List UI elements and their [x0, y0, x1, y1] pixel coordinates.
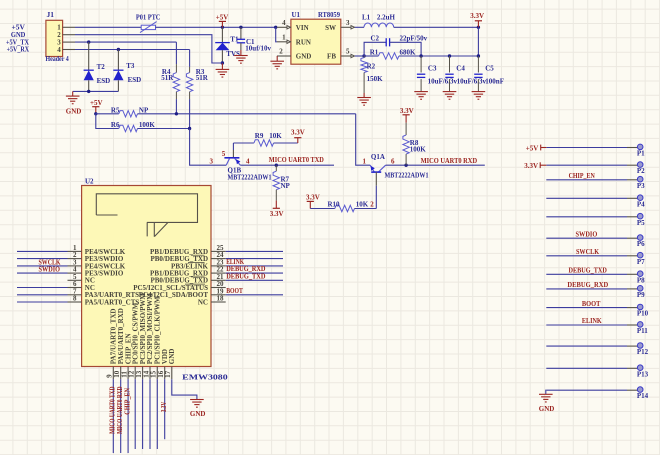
svg-text:MICO UART0 RXD: MICO UART0 RXD	[421, 157, 478, 165]
op-amp U1 RT8059 body	[291, 19, 341, 64]
wire NP-row down to Q1A base wire	[356, 114, 371, 165]
svg-text:GND: GND	[66, 107, 82, 115]
svg-text:150K: 150K	[367, 75, 384, 83]
wire R1 to 3.3V rail	[364, 55, 378, 57]
ground under C1	[240, 50, 242, 56]
U2 name overbars	[191, 254, 205, 256]
U1 pin stubs right	[341, 26, 355, 28]
pad P9	[546, 288, 627, 290]
svg-text:5: 5	[222, 150, 226, 158]
svg-text:P9: P9	[637, 291, 645, 299]
resistor R5 NP	[96, 113, 119, 115]
svg-text:P4: P4	[637, 200, 645, 208]
junction R8 node	[404, 164, 407, 167]
ground under R2	[363, 93, 365, 98]
wire 3.3V rail down	[477, 27, 479, 56]
svg-text:+5V: +5V	[90, 99, 103, 107]
U2 right wires	[226, 250, 283, 252]
pad P7	[546, 255, 627, 257]
U2 right pin stubs	[211, 250, 226, 252]
svg-text:SW: SW	[325, 24, 336, 32]
junction +5V/R5	[94, 112, 97, 115]
junction C1 node	[239, 26, 242, 29]
resistor R9 10K	[233, 142, 254, 144]
svg-text:100nF: 100nF	[485, 77, 504, 85]
U2 left pin stubs	[68, 250, 82, 252]
svg-text:100K: 100K	[410, 146, 427, 154]
junction R4/R5	[175, 112, 178, 115]
svg-text:EMW3080: EMW3080	[182, 373, 228, 381]
wire J1 pin2 GND route	[75, 35, 222, 63]
junction R7 node	[275, 164, 278, 167]
pad P4	[546, 197, 627, 199]
svg-text:U2: U2	[85, 178, 94, 186]
svg-text:3: 3	[210, 158, 214, 166]
transistor Q1B	[232, 143, 234, 150]
ground under C4	[443, 91, 457, 93]
svg-text:T3: T3	[126, 62, 135, 70]
junction T3 node	[117, 48, 120, 51]
svg-text:SWCLK: SWCLK	[576, 248, 599, 256]
svg-text:R5: R5	[111, 106, 120, 114]
wire ESD common to ground	[73, 90, 119, 92]
svg-text:T2: T2	[97, 63, 106, 71]
pad P12	[546, 345, 627, 347]
svg-text:+5V: +5V	[216, 14, 229, 22]
pad P1	[546, 147, 627, 149]
wire L1 to 3.3V node	[394, 26, 479, 28]
ground under T1	[221, 63, 223, 69]
U2 left wires	[17, 250, 68, 252]
svg-text:L1: L1	[362, 14, 371, 22]
svg-text:P01 PTC: P01 PTC	[136, 13, 161, 21]
antenna outline	[96, 194, 197, 237]
svg-text:C3: C3	[428, 64, 437, 72]
svg-text:10K: 10K	[356, 200, 369, 208]
U2 bottom pin stubs	[112, 367, 114, 380]
wire R5 to NP-row	[138, 113, 356, 115]
svg-text:+5V: +5V	[526, 144, 539, 152]
svg-text:680K: 680K	[400, 48, 417, 56]
svg-text:P7: P7	[637, 258, 645, 266]
svg-text:ESD: ESD	[128, 76, 142, 84]
svg-text:DEBUG_RXD: DEBUG_RXD	[567, 281, 608, 289]
svg-text:8: 8	[73, 295, 77, 303]
svg-text:P3: P3	[637, 182, 645, 190]
svg-text:SWDIO: SWDIO	[39, 266, 61, 274]
svg-text:18: 18	[217, 295, 225, 303]
J1 pin stubs	[63, 26, 75, 28]
svg-text:P8: P8	[637, 276, 645, 284]
svg-text:GND: GND	[190, 410, 206, 418]
svg-text:BOOT: BOOT	[226, 287, 243, 295]
wire J1 pin1 to PTC	[75, 26, 141, 28]
svg-text:U1: U1	[292, 11, 301, 19]
junction FB	[362, 54, 365, 57]
svg-text:3: 3	[346, 19, 350, 27]
svg-text:P6: P6	[637, 240, 645, 248]
svg-text:P1: P1	[637, 150, 645, 158]
svg-text:BOOT: BOOT	[582, 300, 601, 308]
wire R3 node to Q1B collector	[190, 129, 227, 166]
svg-text:TVS: TVS	[226, 50, 240, 58]
svg-text:NP: NP	[139, 106, 149, 114]
wire U2 GND pin	[172, 379, 197, 399]
diode T2 ESD	[88, 42, 90, 70]
connector J1	[46, 20, 63, 56]
module U2 EMW3080 body	[82, 186, 211, 367]
svg-text:CHIP_EN: CHIP_EN	[123, 388, 131, 415]
junction T1 anode	[221, 61, 224, 64]
power 3.3V inverted (R7)	[275, 201, 277, 209]
svg-text:22pF/50v: 22pF/50v	[400, 35, 428, 43]
capacitor C4 10uF	[449, 56, 451, 73]
svg-text:51R: 51R	[161, 74, 174, 82]
svg-text:MBT2222ADW1: MBT2222ADW1	[385, 172, 429, 180]
svg-text:+5V_RX: +5V_RX	[7, 46, 30, 54]
svg-text:4: 4	[57, 46, 61, 54]
resistor R4 51R	[175, 42, 177, 64]
resistor R6 100K	[96, 114, 119, 129]
svg-text:R2: R2	[367, 63, 376, 71]
svg-text:3.3V: 3.3V	[524, 162, 538, 170]
svg-text:3.3V: 3.3V	[306, 194, 320, 202]
resistor R7 NP	[275, 165, 277, 171]
svg-text:RT8059: RT8059	[318, 11, 340, 19]
svg-text:FB: FB	[327, 53, 336, 61]
svg-text:R1: R1	[370, 48, 379, 56]
pad P10	[546, 307, 627, 309]
svg-text:Header 4: Header 4	[46, 55, 70, 63]
svg-text:17: 17	[164, 370, 172, 378]
U1 pin stubs left	[277, 26, 291, 28]
wire FB node	[355, 55, 364, 57]
ground under C3	[414, 91, 428, 93]
svg-text:10uF/6.3v: 10uF/6.3v	[457, 77, 487, 85]
wire Q1B emitter / MICO UART0 TXD	[240, 164, 334, 166]
svg-text:NP: NP	[281, 182, 291, 190]
wire PTC to VIN node	[156, 26, 276, 28]
ground U1 GND pin	[276, 56, 278, 61]
pad P3	[546, 179, 627, 181]
capacitor C3 10uF	[420, 56, 422, 73]
svg-text:10K: 10K	[269, 132, 282, 140]
svg-text:51R: 51R	[196, 74, 209, 82]
svg-text:Q1A: Q1A	[371, 153, 385, 161]
svg-text:R6: R6	[111, 121, 120, 129]
svg-text:DEBUG_TXD: DEBUG_TXD	[226, 272, 265, 280]
svg-text:3.3V: 3.3V	[270, 210, 284, 218]
ground P14	[545, 390, 548, 394]
capacitor C1	[240, 27, 242, 39]
resistor R1 680K	[378, 53, 399, 59]
wire R6 to R3 node	[138, 128, 190, 130]
svg-text:DEBUG_TXD: DEBUG_TXD	[569, 267, 607, 275]
wire SW to L1	[355, 26, 364, 28]
U2 bottom wires	[112, 379, 114, 453]
ground under T2/T3	[72, 91, 74, 96]
ground U2	[190, 399, 204, 401]
svg-text:P14: P14	[637, 392, 649, 400]
svg-text:6: 6	[391, 157, 395, 165]
wire J1 pin4	[75, 49, 190, 51]
svg-text:GND: GND	[539, 405, 555, 413]
inductor L1 2.2uH	[364, 23, 394, 27]
svg-text:3.3V: 3.3V	[291, 129, 305, 137]
ground under C5	[472, 91, 486, 93]
svg-text:MICO UART0 TXD: MICO UART0 TXD	[269, 156, 324, 164]
svg-text:5: 5	[346, 48, 350, 56]
wire Q1A collector / MICO UART0 RXD	[386, 164, 485, 166]
capacitor C2 22pF	[364, 42, 386, 56]
pad P8	[546, 273, 627, 275]
svg-text:3.3V: 3.3V	[400, 107, 414, 115]
svg-text:3.3V: 3.3V	[160, 402, 168, 413]
junction C3	[419, 54, 422, 57]
svg-text:GND: GND	[296, 53, 312, 61]
svg-text:4: 4	[282, 19, 286, 27]
svg-text:P10: P10	[637, 310, 649, 318]
svg-text:2: 2	[370, 201, 374, 209]
svg-text:10uf/10v: 10uf/10v	[245, 45, 271, 53]
capacitor C5 100nF	[477, 56, 479, 73]
svg-text:2: 2	[279, 48, 283, 56]
transistor Q1A	[370, 165, 374, 172]
pad P14	[546, 389, 627, 391]
svg-text:SWDIO: SWDIO	[576, 230, 598, 238]
pad P6	[546, 237, 627, 239]
junction T2 anode	[87, 90, 90, 93]
svg-text:CHIP_EN: CHIP_EN	[569, 172, 595, 180]
fuse P01 PTC	[141, 25, 155, 29]
resistor R3 51R	[189, 50, 191, 67]
svg-text:P11: P11	[637, 327, 648, 335]
svg-text:1: 1	[282, 33, 286, 41]
svg-text:C4: C4	[456, 64, 465, 72]
pad P13	[546, 367, 627, 369]
resistor R2 150K	[363, 56, 365, 58]
svg-text:NC: NC	[198, 298, 208, 306]
junction T2 node	[87, 40, 90, 43]
svg-text:2.2uH: 2.2uH	[377, 14, 396, 22]
diode T3 ESD	[117, 50, 119, 71]
junction 3.3V node	[477, 26, 480, 29]
svg-text:VIN: VIN	[296, 24, 309, 32]
svg-text:J1: J1	[47, 11, 55, 19]
svg-text:C2: C2	[371, 35, 380, 43]
junction C5/3.3V	[477, 54, 480, 57]
junction R3/R6	[188, 127, 191, 130]
svg-text:ELINK: ELINK	[582, 317, 602, 325]
wire RUN to VIN node	[276, 27, 277, 42]
svg-text:4: 4	[246, 158, 250, 166]
pad P2	[546, 164, 627, 166]
svg-text:MBT2222ADW1: MBT2222ADW1	[228, 174, 272, 182]
svg-text:P5: P5	[637, 219, 645, 227]
U1 input arrows	[287, 26, 290, 29]
junction U1 VIN node	[274, 26, 277, 29]
U1 output arrows	[351, 26, 354, 29]
wire J1 pin3	[75, 41, 176, 43]
svg-text:P12: P12	[637, 348, 649, 356]
svg-text:R9: R9	[255, 132, 264, 140]
svg-text:P13: P13	[637, 370, 649, 378]
svg-text:10uF/6.3v: 10uF/6.3v	[428, 77, 458, 85]
junction +5V node	[221, 26, 224, 29]
svg-text:100K: 100K	[139, 121, 156, 129]
pad P11	[546, 324, 627, 326]
svg-text:C5: C5	[485, 64, 494, 72]
svg-text:ESD: ESD	[97, 77, 111, 85]
svg-text:RUN: RUN	[296, 38, 311, 46]
svg-text:1: 1	[363, 157, 367, 165]
pad P5	[546, 216, 627, 218]
svg-text:R10: R10	[328, 200, 341, 208]
svg-text:P2: P2	[637, 167, 645, 175]
diode T1 TVS	[221, 27, 223, 42]
junction C4	[448, 54, 451, 57]
svg-text:3.3V: 3.3V	[470, 12, 484, 20]
svg-text:GND: GND	[168, 349, 176, 365]
